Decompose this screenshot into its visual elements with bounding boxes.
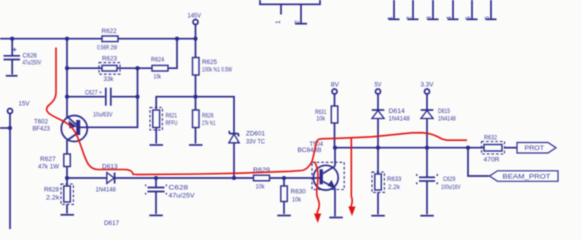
- ground R621: [150, 144, 164, 146]
- svg-text:470R: 470R: [484, 157, 500, 164]
- svg-text:C627 +: C627 +: [85, 90, 102, 97]
- diode D614 1N4148: [372, 108, 410, 148]
- svg-text:C626: C626: [23, 53, 38, 60]
- capacitor C628 47u/25V: [145, 178, 195, 214]
- svg-text:1N4148: 1N4148: [438, 116, 456, 123]
- resistor R629 10k: [253, 167, 270, 191]
- wire T504 collector riser: [334, 148, 336, 167]
- resistor R631 10k: [315, 106, 338, 148]
- node junction D614-R633: [376, 146, 380, 150]
- svg-text:R622: R622: [102, 28, 118, 35]
- node junction collector-R631: [333, 146, 337, 150]
- svg-text:2.2k: 2.2k: [388, 184, 401, 191]
- svg-text:47u/25V: 47u/25V: [169, 193, 196, 200]
- svg-text:D617: D617: [104, 220, 119, 227]
- node junction 145V: [193, 37, 197, 41]
- resistor R624 10k: [151, 39, 177, 81]
- resistor R622 0.56R 2W: [97, 28, 118, 52]
- transistor T504 BC848B: [298, 141, 345, 190]
- node 3.3V terminal: [421, 81, 435, 110]
- resistor R628 2.2k: [44, 178, 73, 214]
- svg-text:R626: R626: [202, 113, 214, 120]
- svg-text:145V: 145V: [188, 13, 202, 20]
- pin 5 header: [465, 0, 478, 20]
- svg-text:D615: D615: [438, 108, 450, 115]
- node junction R624 riser: [175, 37, 179, 41]
- diode D613 1N4148: [96, 164, 118, 194]
- svg-text:D614: D614: [389, 108, 406, 115]
- svg-text:10u/63V: 10u/63V: [93, 112, 113, 119]
- svg-text:PROT: PROT: [525, 145, 545, 152]
- svg-text:0.56R 2W: 0.56R 2W: [97, 45, 118, 52]
- node junction 15V: [8, 126, 12, 130]
- wire BEAM riser: [468, 148, 489, 176]
- resistor R627 47k 1W: [38, 154, 70, 178]
- pin 2 connector: [294, 4, 307, 24]
- svg-text:R632: R632: [484, 135, 497, 142]
- svg-text:1N4148: 1N4148: [389, 116, 411, 123]
- svg-text:6: 6: [484, 16, 491, 20]
- wire main top rail y=39: [0, 38, 196, 40]
- svg-text:BEAM_PROT: BEAM_PROT: [503, 174, 551, 181]
- diode ZD601 33V TC zener: [229, 131, 266, 178]
- resistor R633 2.2k: [372, 148, 402, 215]
- svg-text:R627: R627: [40, 156, 56, 163]
- wire T504 emitter to ground: [334, 188, 336, 216]
- node junction left column top: [65, 37, 69, 41]
- node PROT flag: [517, 143, 556, 154]
- svg-text:100u/16V: 100u/16V: [441, 184, 461, 191]
- pin 6 header: [484, 0, 497, 20]
- ground R626: [189, 144, 203, 146]
- resistor R625 100k %1 0.5W: [193, 39, 233, 97]
- svg-text:33k: 33k: [104, 76, 115, 83]
- wire red annotation main trace: [47, 48, 467, 175]
- pin 4 header: [446, 0, 459, 20]
- svg-text:100k %1 0.5W: 100k %1 0.5W: [202, 67, 233, 74]
- ground C629: [420, 215, 434, 217]
- svg-text:R623: R623: [102, 56, 117, 63]
- node junction R625-R626: [193, 95, 197, 99]
- resistor R626 27k %1: [193, 97, 216, 144]
- svg-text:10k: 10k: [154, 74, 162, 81]
- resistor R623 33k: [67, 56, 152, 84]
- node 145V terminal: [188, 13, 202, 39]
- node 8V terminal: [331, 81, 340, 106]
- svg-text:+: +: [13, 47, 17, 54]
- svg-text:R630: R630: [291, 189, 307, 196]
- transistor T602 BF423: [33, 116, 88, 155]
- ground C628: [149, 214, 163, 216]
- svg-text:10k: 10k: [256, 184, 266, 191]
- svg-text:15V: 15V: [19, 101, 31, 108]
- diode D615 1N4148: [421, 108, 456, 148]
- svg-text:1: 1: [387, 16, 394, 20]
- svg-text:C628: C628: [169, 185, 189, 192]
- svg-text:1N4148: 1N4148: [96, 187, 117, 194]
- svg-text:27k %1: 27k %1: [202, 120, 216, 127]
- svg-text:1: 1: [275, 20, 282, 24]
- wire red annotation arrow at T504 emitter: [348, 139, 355, 217]
- svg-text:R621: R621: [166, 113, 178, 120]
- wire bottom rail y=178: [67, 177, 320, 179]
- svg-text:8V: 8V: [331, 81, 340, 88]
- node 5V terminal: [375, 81, 383, 110]
- pin 1 header: [387, 0, 400, 20]
- node junction ZD601 bottom: [232, 176, 236, 180]
- svg-text:47u/250V: 47u/250V: [23, 60, 42, 67]
- svg-text:4: 4: [446, 16, 453, 20]
- wire 15V column: [0, 114, 10, 230]
- svg-text:2.2k: 2.2k: [46, 195, 60, 202]
- resistor R621 RFFU: [150, 108, 178, 144]
- svg-text:47k 1W: 47k 1W: [38, 164, 60, 171]
- ground R630: [277, 215, 291, 217]
- svg-text:BF423: BF423: [33, 126, 51, 133]
- capacitor C626 47u/250V: [4, 39, 42, 75]
- label D617: [104, 220, 119, 227]
- svg-text:R625: R625: [202, 59, 217, 66]
- connector top-left box: [260, 0, 320, 4]
- svg-text:ZD601: ZD601: [246, 131, 265, 138]
- node junction R623 left: [65, 66, 69, 70]
- node junction C626 top: [10, 37, 14, 41]
- svg-text:T602: T602: [34, 119, 48, 126]
- pin 2 header: [406, 0, 419, 20]
- node junction C627 right: [135, 95, 139, 99]
- pin 3 header: [426, 0, 439, 20]
- pin 1 connector: [275, 4, 282, 24]
- svg-text:10k: 10k: [316, 116, 326, 123]
- ground R633: [371, 215, 385, 217]
- svg-text:RFFU: RFFU: [166, 120, 178, 127]
- svg-text:2: 2: [294, 20, 301, 24]
- wire red annotation arrow at T504 base: [314, 162, 321, 224]
- node junction D615-C629: [425, 146, 429, 150]
- node junction R630 top: [282, 176, 286, 180]
- ground T504: [329, 217, 343, 219]
- wire protection rail y=147.7: [335, 147, 484, 149]
- svg-text:5V: 5V: [375, 81, 383, 88]
- svg-text:R624: R624: [151, 57, 164, 64]
- node junction R627-R628: [65, 176, 69, 180]
- node junction C627 left: [65, 95, 69, 99]
- node junction BEAM riser: [466, 146, 470, 150]
- wire riser x=137.5 to T602 base: [80, 68, 138, 127]
- svg-text:33V TC: 33V TC: [246, 139, 265, 146]
- node BEAM_PROT flag: [490, 171, 559, 182]
- wire left column x=67: [66, 39, 68, 118]
- ground C626: [6, 75, 18, 77]
- wire zener rail y=96.7: [156, 97, 234, 134]
- node junction R623-R624 riser: [135, 66, 139, 70]
- svg-text:3.3V: 3.3V: [421, 81, 435, 88]
- svg-text:R628: R628: [44, 187, 59, 194]
- capacitor C627 10u/63V: [67, 88, 138, 119]
- node 15V terminal: [8, 101, 31, 114]
- resistor R632 470R: [482, 135, 518, 164]
- svg-text:R633: R633: [387, 176, 402, 183]
- svg-text:2: 2: [406, 16, 413, 20]
- svg-text:5: 5: [465, 16, 472, 20]
- svg-text:3: 3: [426, 16, 433, 20]
- capacitor C629 100u/16V: [416, 148, 461, 215]
- svg-text:10k: 10k: [292, 197, 302, 204]
- svg-text:C629: C629: [443, 176, 456, 183]
- svg-text:BC848B: BC848B: [298, 147, 323, 154]
- resistor R630 10k: [281, 178, 306, 214]
- node junction C628 top: [154, 176, 158, 180]
- ground R628: [61, 214, 75, 216]
